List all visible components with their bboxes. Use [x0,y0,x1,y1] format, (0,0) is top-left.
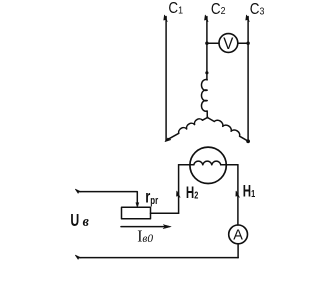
ammeter A [229,225,248,244]
terminal arrow H1 [236,191,239,197]
junction dot C2 mid [205,71,208,74]
winding end arrow left [165,138,170,141]
stator winding phase C2 (vertical coil) [201,80,207,118]
star point node [206,116,208,118]
svg-text:H1: H1 [243,183,255,202]
svg-text:U: U [70,211,79,231]
terminal arrow C2 [205,15,208,21]
terminal arrow Uv minus [75,255,81,259]
stator winding phase C3 (right diagonal coil) [207,118,248,142]
svg-text:Iв0: Iв0 [137,228,153,245]
rotor lead wire right [221,164,238,166]
svg-text:H2: H2 [186,184,198,203]
stator winding phase C1 (left diagonal coil) [166,118,207,141]
svg-text:C2: C2 [211,1,226,18]
wire voltmeter left [207,42,219,44]
junction dot C3/V [246,42,249,45]
rheostat slider arrow [136,203,139,208]
rheostat r_pr box [122,207,151,219]
voltmeter V [219,34,238,53]
rotor lead wire left [179,164,194,166]
wire ammeter to bottom [237,244,239,258]
wire C1 vertical [165,17,167,141]
svg-text:V: V [223,35,233,53]
svg-text:C3: C3 [250,1,265,18]
wire H1 vertical [237,165,239,225]
wire C2 vertical upper [206,17,208,80]
terminal arrow C3 [246,15,249,21]
svg-text:rpr: rpr [145,188,158,208]
terminal arrow H2 [177,191,180,197]
rotor circle (field winding) [190,147,226,183]
svg-text:A: A [233,227,243,243]
wire rheostat to H2 [151,212,179,214]
wire H2 vertical [178,165,180,213]
bottom return wire [78,257,238,259]
top excitation wire from Uv [78,192,137,203]
terminal arrow C1 [164,15,167,21]
junction dot C2/V [205,42,208,45]
svg-text:в: в [83,213,90,230]
wire voltmeter right [238,42,248,44]
winding end arrow right / junction [246,139,250,143]
svg-text:C1: C1 [168,0,183,17]
current direction arrow Iv0 [121,226,165,228]
terminal arrow Uv plus [75,189,81,193]
field coil inside rotor [194,161,221,165]
wire C3 vertical [247,17,249,142]
